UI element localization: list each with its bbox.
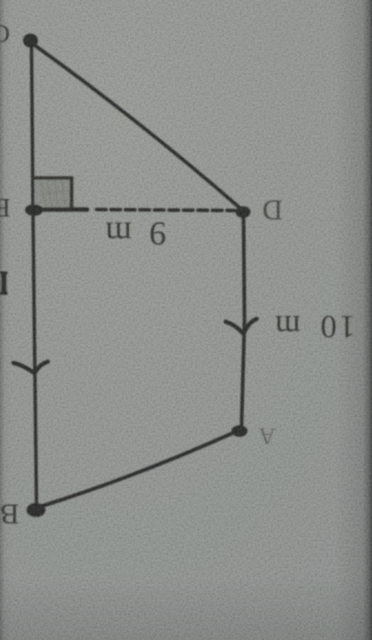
node F (dot) [25,204,43,216]
right-angle square marker at F (shaded) [33,178,87,210]
wire: bottom line B-to-A [39,433,234,508]
wire: slanted line C-to-D [33,44,240,208]
arrow tick on line C-B [13,362,47,373]
node B (dot) [27,503,46,517]
node C (dot) [23,34,38,48]
wire: dashed line F-to-D (9 m) [97,210,235,211]
node A (dot) [232,425,248,437]
label I mark at left edge (bold serif I) [0,272,8,295]
arrow tick on line D-A [226,319,257,334]
wire: vertical line D-to-A [242,216,245,427]
wire: side C-to-B vertical line [32,45,37,505]
node D (dot) [236,206,251,218]
